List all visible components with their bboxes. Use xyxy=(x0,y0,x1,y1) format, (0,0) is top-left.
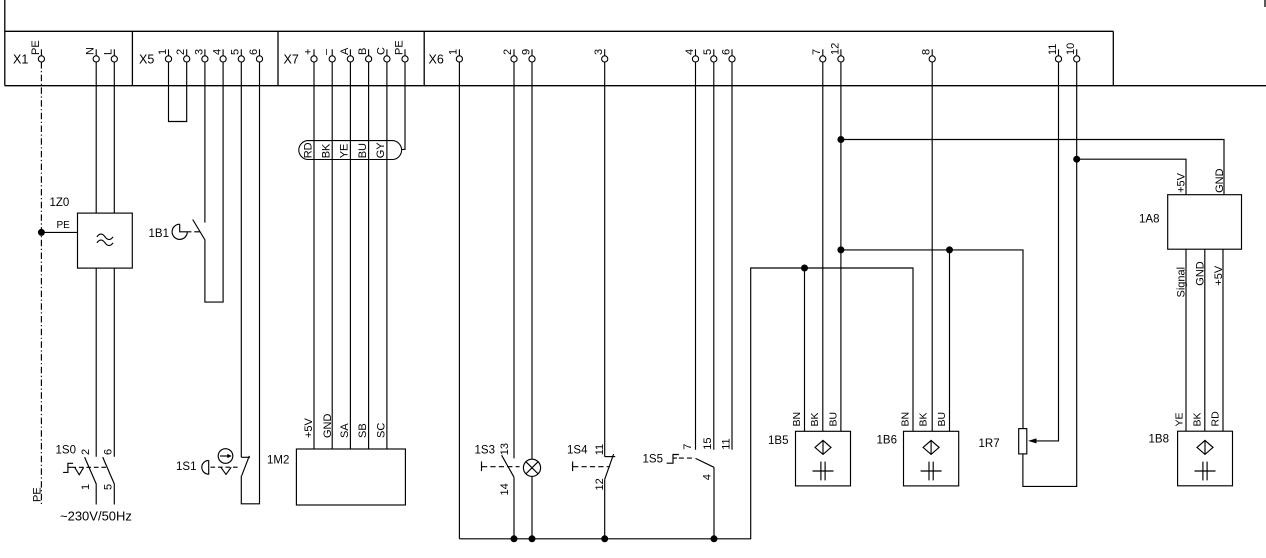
wire N below 1S0 xyxy=(95,484,97,504)
svg-text:GY: GY xyxy=(375,142,387,159)
wire 1B6 BU drop xyxy=(949,250,951,431)
svg-text:13: 13 xyxy=(499,443,511,455)
switch 1S4 T actuator xyxy=(572,462,574,472)
wire 1A8 Signal to 1B8 YE xyxy=(1185,249,1187,431)
wire X6 pin4 to 1S5 xyxy=(695,62,697,450)
wire 1A8 GND to 1B8 BK xyxy=(1204,249,1206,431)
amplifier 1A8 box xyxy=(1168,195,1242,250)
switch 1S3 contact arm xyxy=(502,455,514,477)
wire X6 pin10 to 1R7 bottom xyxy=(1023,62,1077,486)
switch 1S3 T actuator xyxy=(481,462,483,472)
svg-text:BK: BK xyxy=(321,143,333,158)
terminal X1 pins PE N L xyxy=(38,56,44,62)
svg-text:B: B xyxy=(357,48,369,55)
lamp circle xyxy=(523,459,540,476)
lamp cross xyxy=(526,462,538,474)
svg-text:X5: X5 xyxy=(139,53,154,67)
wire X6 pin6 open end xyxy=(731,62,733,450)
svg-text:+5V: +5V xyxy=(1176,172,1188,193)
svg-text:X1: X1 xyxy=(13,53,28,67)
PIN TICKS xyxy=(41,49,1076,56)
svg-text:BK: BK xyxy=(809,412,821,426)
svg-text:4: 4 xyxy=(212,49,224,55)
wire lamp to rail xyxy=(531,476,533,538)
svg-text:SA: SA xyxy=(339,423,351,438)
wire PE dash-dot line xyxy=(40,62,42,505)
wire X6 pin8 to 1B6 BK xyxy=(931,62,933,431)
svg-text:3: 3 xyxy=(193,49,205,55)
svg-text:2: 2 xyxy=(175,49,187,55)
sensor 1B1 actuator dash xyxy=(194,231,200,233)
svg-text:PE: PE xyxy=(31,487,43,502)
wire X7 A to 1M2 xyxy=(349,62,351,449)
divider X5/X7 xyxy=(277,31,279,85)
switch 1S1 plunger symbol xyxy=(202,460,209,474)
svg-text:YE: YE xyxy=(1173,412,1185,426)
wire X7 - to 1M2 xyxy=(331,62,333,449)
svg-text:1B5: 1B5 xyxy=(768,435,788,447)
svg-text:C: C xyxy=(375,47,387,55)
sensor 1B1 magnet symbol xyxy=(172,224,191,239)
svg-text:BU: BU xyxy=(827,412,839,427)
svg-text:YE: YE xyxy=(339,144,351,159)
wire X6 pin2 to 1S3 xyxy=(513,62,515,458)
svg-text:1S3: 1S3 xyxy=(475,444,495,456)
wire N 1Z0 to 1S0 xyxy=(95,268,97,457)
wire L terminal to 1Z0 xyxy=(113,62,115,213)
wire 1B1 to X5 pin4 loop xyxy=(205,62,223,302)
svg-text:12: 12 xyxy=(594,478,606,490)
wire 1S5 to rail xyxy=(713,467,715,539)
junction dot 1B5 BN xyxy=(801,265,808,272)
svg-text:+: + xyxy=(302,49,314,55)
svg-text:12: 12 xyxy=(829,43,841,55)
svg-text:11: 11 xyxy=(1047,44,1059,55)
wire net pin12 to 1R7 top xyxy=(841,250,1023,429)
svg-text:PE: PE xyxy=(393,40,405,55)
switch 1S1 detent V symbol xyxy=(221,467,231,474)
svg-text:SC: SC xyxy=(375,423,387,438)
svg-text:BU: BU xyxy=(357,143,369,158)
terminal strip band left border xyxy=(4,0,6,86)
svg-text:2: 2 xyxy=(80,449,92,455)
switch 1S5 mechanical link xyxy=(679,457,695,459)
terminal X5 pin ticks 1-6 xyxy=(168,49,170,56)
svg-text:14: 14 xyxy=(499,483,511,495)
junction dot 1B6 BU xyxy=(946,246,953,253)
wire net GND to 1A8 xyxy=(841,140,1224,195)
svg-text:RD: RD xyxy=(1210,411,1222,427)
svg-text:GND: GND xyxy=(1214,168,1226,193)
svg-text:PE: PE xyxy=(57,220,71,231)
filter 1Z0 box xyxy=(78,213,133,268)
svg-text:BN: BN xyxy=(900,412,912,427)
svg-text:1S5: 1S5 xyxy=(643,453,663,465)
svg-text:5: 5 xyxy=(230,49,242,55)
svg-text:6: 6 xyxy=(248,49,260,55)
wire X7 + to 1M2 xyxy=(313,62,315,449)
svg-text:9: 9 xyxy=(520,49,532,55)
ROTATED PIN LABELS xyxy=(30,40,1077,55)
sensor 1B5 capacitor symbol xyxy=(813,462,834,481)
junction dot 1S5 rail xyxy=(711,535,718,542)
svg-text:BK: BK xyxy=(918,412,930,426)
sensor 1B1 contact arm xyxy=(193,220,206,241)
wire L below 1S0 xyxy=(113,484,115,504)
wire jumper X5 pins 1-2 xyxy=(169,62,187,122)
motor 1M2 box xyxy=(296,449,405,505)
wire X7 B to 1M2 xyxy=(368,62,370,449)
svg-text:BU: BU xyxy=(936,412,948,427)
svg-text:SB: SB xyxy=(357,423,369,438)
divider X7/X6 xyxy=(423,31,425,85)
switch 1S0 contact arm L xyxy=(103,457,115,484)
terminal X1 pin ticks PE N L xyxy=(40,49,42,56)
wire X7 PE to cable marker xyxy=(402,62,405,149)
switch 1S0 mechanical link xyxy=(71,466,106,468)
svg-text:RD: RD xyxy=(302,142,314,158)
svg-text:PE: PE xyxy=(30,40,42,55)
junction dot 1S4 rail xyxy=(601,535,608,542)
svg-text:15: 15 xyxy=(702,438,714,450)
cable marker stadium xyxy=(299,141,402,160)
sensor 1B8 capacitor symbol xyxy=(1195,462,1216,481)
svg-text:5: 5 xyxy=(702,49,714,55)
svg-text:A: A xyxy=(339,47,351,55)
svg-text:11: 11 xyxy=(594,444,606,455)
svg-text:1S0: 1S0 xyxy=(56,445,76,457)
potentiometer 1R7 body xyxy=(1019,429,1027,454)
TERMINAL NAMES xyxy=(13,53,444,67)
svg-text:1B6: 1B6 xyxy=(877,435,897,447)
wire X6 pin12 to 1B5 BU xyxy=(840,62,842,431)
svg-text:L: L xyxy=(103,49,115,55)
switch 1S1 NC contact seat xyxy=(241,456,250,458)
PIN CIRCLES xyxy=(38,56,1079,62)
switch 1S0 detent V symbol xyxy=(75,467,84,475)
switch 1S4 NC contact arm xyxy=(605,454,614,479)
svg-text:1Z0: 1Z0 xyxy=(50,197,70,209)
wire X6 pin11 to 1R7 wiper xyxy=(1035,62,1059,441)
wire net +5V pin10 to 1A8 xyxy=(1077,159,1186,195)
switch 1S1 NC contact arm xyxy=(242,456,250,476)
svg-text:1: 1 xyxy=(157,49,169,55)
svg-text:X6: X6 xyxy=(429,53,444,67)
wire X6 pin9 to lamp xyxy=(531,62,533,459)
filter 1Z0 wave symbol xyxy=(97,234,113,245)
wire 1S3 to rail xyxy=(513,477,515,539)
wire L 1Z0 to 1S0 xyxy=(113,268,115,457)
wire X7 C to 1M2 xyxy=(386,62,388,449)
svg-text:1B1: 1B1 xyxy=(149,228,169,240)
svg-text:N: N xyxy=(85,47,97,55)
wire X5 pin3 to 1B1 xyxy=(204,62,206,223)
switch 1S0 actuator F symbol xyxy=(63,463,73,472)
svg-text:8: 8 xyxy=(921,49,933,55)
switch 1S3 mechanical link xyxy=(482,466,520,468)
wire X6 pin5 open end xyxy=(713,62,715,450)
terminal X7 pin ticks xyxy=(313,49,315,56)
svg-text:1S1: 1S1 xyxy=(176,461,196,473)
sensor 1B6 diamond symbol xyxy=(923,440,939,454)
sensor 1B5 box xyxy=(796,431,851,486)
wire X6 pin1 down to rail xyxy=(458,62,460,539)
wire X6 pin7 to 1B5 xyxy=(822,62,824,431)
svg-text:10: 10 xyxy=(1065,43,1077,55)
divider X1/X5 xyxy=(131,31,133,85)
potentiometer 1R7 wiper arrow xyxy=(1028,438,1037,443)
wire PE stub to 1Z0 xyxy=(41,231,77,233)
wire X5 pin5 to 1S1 xyxy=(240,62,242,457)
switch 1S1 mechanical link xyxy=(211,466,241,468)
svg-text:GND: GND xyxy=(1194,261,1206,286)
svg-text:5: 5 xyxy=(102,484,114,490)
switch 1S4 NC contact seat xyxy=(605,456,616,458)
terminal X6 pin ticks xyxy=(458,49,460,56)
switch 1S4 mechanical link xyxy=(573,466,610,468)
top right corner mark xyxy=(1264,0,1266,7)
terminal strip band bottom line xyxy=(5,85,1266,87)
svg-text:BN: BN xyxy=(791,412,803,427)
junction dot pin12 GND net xyxy=(837,136,844,143)
switch 1S5 contact arm xyxy=(696,458,715,467)
svg-text:1: 1 xyxy=(448,49,460,55)
svg-text:–: – xyxy=(321,48,333,55)
switch 1S5 actuator F symbol xyxy=(667,455,679,464)
wire 1S4 to rail xyxy=(604,479,606,539)
wire bottom rail xyxy=(459,268,913,539)
junction dot pin10 +5V xyxy=(1073,156,1080,163)
svg-text:1A8: 1A8 xyxy=(1139,213,1159,225)
switch 1S1 rotary circle-arrow xyxy=(218,449,233,464)
svg-text:7: 7 xyxy=(811,49,823,55)
sensor 1B6 capacitor symbol xyxy=(921,462,942,481)
svg-text:7: 7 xyxy=(682,444,694,450)
svg-text:X7: X7 xyxy=(284,53,299,67)
svg-text:1S4: 1S4 xyxy=(567,444,588,456)
svg-text:6: 6 xyxy=(102,449,114,455)
wire 1B5 BN drop xyxy=(804,268,806,431)
svg-text:3: 3 xyxy=(593,49,605,55)
svg-text:BK: BK xyxy=(1191,412,1203,426)
junction dot PE/1Z0 xyxy=(38,229,45,236)
svg-text:1: 1 xyxy=(80,484,92,490)
terminal X7 pins xyxy=(311,56,317,62)
sensor 1B8 diamond symbol xyxy=(1197,440,1213,454)
junction dot 1S3 rail xyxy=(511,535,518,542)
svg-text:11: 11 xyxy=(720,438,732,449)
svg-text:1B8: 1B8 xyxy=(1149,434,1169,446)
svg-text:6: 6 xyxy=(720,49,732,55)
svg-text:~230V/50Hz: ~230V/50Hz xyxy=(60,509,132,524)
wire 1S1 to bottom loop xyxy=(241,62,259,504)
terminal X6 pins xyxy=(456,56,462,62)
svg-text:GND: GND xyxy=(322,414,334,439)
junction dot lamp rail xyxy=(529,535,536,542)
svg-text:+5V: +5V xyxy=(1213,265,1225,286)
terminal X5 pins 1-6 xyxy=(165,56,171,62)
sensor 1B8 box xyxy=(1178,431,1233,486)
wire X6 pin3 to 1S4 xyxy=(604,62,606,457)
svg-text:4: 4 xyxy=(684,49,696,55)
junction dot pin12 1R7 net xyxy=(837,246,844,253)
sensor 1B6 box xyxy=(904,431,959,486)
wire N terminal to 1Z0 xyxy=(95,62,97,213)
terminal X6 right edge xyxy=(1112,31,1114,85)
svg-text:4: 4 xyxy=(702,474,714,480)
switch 1S0 contact arm N xyxy=(85,457,97,484)
sensor 1B5 diamond symbol xyxy=(815,440,831,454)
svg-text:1M2: 1M2 xyxy=(267,455,289,467)
wire 1A8 +5V to 1B8 RD xyxy=(1222,249,1224,431)
svg-text:2: 2 xyxy=(502,49,514,55)
terminal strip band top line xyxy=(5,30,1114,32)
svg-text:+5V: +5V xyxy=(303,417,315,438)
svg-text:1R7: 1R7 xyxy=(979,438,1000,450)
svg-text:Signal: Signal xyxy=(1176,267,1188,298)
